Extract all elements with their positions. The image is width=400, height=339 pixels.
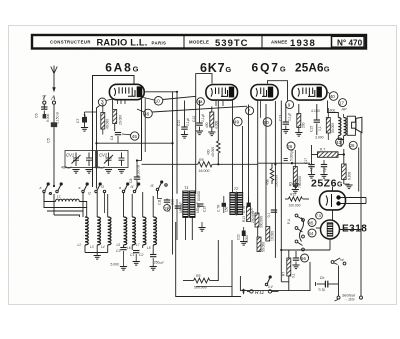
svg-text:C.TR: C.TR (217, 204, 221, 212)
wires divider (312, 154, 318, 156)
resistor R3 cathode (210, 112, 214, 127)
svg-text:C11: C11 (158, 199, 162, 205)
capacitor C1 (133, 251, 139, 253)
svg-text:L1: L1 (57, 195, 61, 199)
svg-text:I3: I3 (101, 185, 104, 189)
wire node3 link (106, 98, 113, 101)
svg-text:150µµF: 150µµF (196, 202, 200, 213)
svg-text:0,1: 0,1 (267, 213, 271, 218)
svg-text:C13: C13 (279, 115, 283, 121)
svg-text:250µµF: 250µµF (154, 261, 165, 265)
tube U5 25Z6 envelope (320, 191, 346, 210)
wire E318 left stub (316, 227, 321, 229)
terminal row R ohm (242, 289, 279, 294)
node 66 circle (301, 254, 309, 262)
svg-text:L8: L8 (147, 246, 151, 250)
svg-text:P.U.: P.U. (287, 218, 291, 224)
capacitor C12 with ground (199, 101, 201, 123)
svg-text:C12: C12 (192, 116, 196, 122)
resistor cathode 25A6 (297, 114, 301, 128)
coil L2 (85, 217, 88, 245)
capacitor bottom right with ground (295, 251, 297, 258)
wire antenna A branch (53, 104, 55, 122)
resistor R2 (113, 110, 117, 124)
resistor R12 horizontal (285, 198, 288, 200)
grounds under gang (72, 170, 79, 174)
svg-text:L6: L6 (127, 246, 131, 250)
output transformer winding secondary (344, 118, 347, 136)
junction dot (291, 162, 293, 164)
speaker voice coil (352, 122, 356, 128)
svg-text:0,1µf: 0,1µf (201, 114, 205, 122)
resistor R6 16.000 horizontal (142, 163, 198, 165)
svg-text:C10: C10 (177, 120, 181, 126)
svg-text:50.000: 50.000 (331, 123, 335, 133)
svg-text:C5: C5 (47, 138, 51, 143)
svg-text:250.000: 250.000 (251, 211, 255, 223)
svg-text:150µµF: 150µµF (179, 202, 183, 213)
svg-text:Bob.: Bob. (330, 109, 337, 113)
wire A down to switch (53, 127, 55, 186)
band switch S3 (122, 183, 139, 193)
tube U2 6K7 envelope (206, 85, 238, 101)
svg-text:19: 19 (164, 206, 168, 210)
svg-text:R6: R6 (199, 158, 204, 162)
svg-text:a: a (119, 186, 121, 190)
resistor R5 500.000 (183, 280, 194, 282)
svg-text:Ch: Ch (320, 276, 325, 280)
svg-text:R5: R5 (196, 274, 201, 278)
node 42 circle (197, 98, 205, 106)
secteur switch (331, 258, 362, 301)
svg-text:L3: L3 (90, 245, 94, 249)
transformer T1 primary (183, 191, 188, 217)
svg-text:400: 400 (205, 122, 209, 128)
capacitor C18 (175, 206, 181, 208)
svg-text:A: A (50, 95, 56, 102)
wire antenna T branch (43, 104, 45, 109)
svg-text:T2: T2 (234, 186, 239, 191)
svg-text:C17: C17 (304, 158, 308, 164)
transformer T2 primary (230, 193, 235, 215)
svg-text:R12: R12 (290, 192, 296, 196)
node 49 circle (234, 117, 243, 126)
coil L3 (97, 217, 100, 245)
svg-text:I4: I4 (131, 185, 134, 189)
terminal T (43, 101, 46, 104)
svg-text:4a: 4a (198, 99, 203, 104)
svg-text:400: 400 (207, 149, 211, 155)
svg-text:R.T.: R.T. (320, 148, 326, 152)
capacitor C11 small (164, 200, 170, 202)
svg-text:43: 43 (336, 140, 341, 145)
wire transformer bottom (338, 136, 343, 140)
svg-text:Int: Int (340, 258, 344, 262)
svg-text:20.000: 20.000 (119, 115, 123, 125)
wire anode link to 6K7 (144, 98, 155, 101)
tube U3 electrodes (256, 87, 273, 97)
page scan edge (9, 26, 397, 305)
svg-text:4.150: 4.150 (311, 109, 320, 113)
node f circle (246, 107, 254, 115)
node 19 circle (164, 205, 171, 212)
svg-text:0,1µf: 0,1µf (186, 118, 190, 126)
svg-text:R9: R9 (289, 182, 293, 186)
svg-text:17: 17 (339, 100, 344, 105)
svg-text:49: 49 (234, 119, 240, 124)
svg-text:E318: E318 (342, 224, 367, 235)
resistor 300.000 (255, 213, 259, 227)
svg-text:100.000: 100.000 (289, 204, 301, 208)
switch 0V (265, 276, 271, 286)
ground T2 top (292, 184, 299, 188)
ground under C19 (201, 222, 203, 227)
wire below C6 (43, 111, 45, 115)
wire 6K7 anode down (232, 100, 234, 192)
wire under E318 horizontal (281, 249, 330, 251)
svg-text:6.800: 6.800 (348, 172, 352, 180)
node 45 circle (131, 132, 139, 140)
wire right bus from speaker (358, 148, 360, 192)
svg-text:5.000µµ: 5.000µµ (290, 149, 294, 161)
wire 25A6 pins long (274, 101, 276, 258)
capacitor C2 250µµF (150, 255, 156, 257)
node 44 circle right (308, 229, 316, 237)
svg-text:539TC: 539TC (215, 38, 249, 49)
svg-text:L7: L7 (136, 243, 140, 247)
svg-text:C4: C4 (110, 136, 114, 140)
wire left bus down (92, 76, 94, 188)
voltage divider resistor (318, 152, 339, 158)
svg-text:40.000: 40.000 (211, 147, 215, 157)
capacitor C10 with ground (184, 101, 186, 127)
svg-text:40: 40 (330, 94, 336, 99)
tube U6 filament bar (327, 223, 333, 236)
node 26 circle right (349, 141, 357, 149)
svg-text:0,1: 0,1 (291, 273, 295, 278)
node 10 circle (154, 97, 163, 106)
svg-text:T1: T1 (184, 185, 189, 190)
capacitor C20 left of T2 (222, 203, 226, 207)
wire L1 out (79, 202, 86, 208)
svg-text:→ 110v: → 110v (344, 298, 355, 302)
node 9 circle (286, 101, 294, 109)
tube U1 electrodes (114, 87, 142, 97)
tube U6 E318 envelope (321, 220, 340, 239)
svg-text:45: 45 (308, 220, 313, 225)
gang capacitor CV2 box (98, 151, 129, 168)
wires under coils (85, 245, 153, 255)
coil L4 (108, 217, 111, 245)
terminal A (52, 101, 55, 104)
coil L1 horizontal (56, 199, 80, 201)
svg-text:10: 10 (155, 99, 161, 104)
wire E318 bottom (329, 239, 331, 250)
tube U4 25A6 envelope (292, 85, 327, 101)
svg-text:C15: C15 (310, 126, 314, 132)
svg-text:C22: C22 (237, 234, 241, 240)
resistor 50.000b (257, 237, 261, 252)
speaker cone (356, 117, 362, 132)
wire nested bus 3 (54, 215, 80, 217)
output transformer winding primary (338, 118, 341, 136)
svg-text:200: 200 (302, 122, 306, 128)
svg-text:66: 66 (301, 256, 306, 261)
PU jack (295, 214, 304, 251)
capacitor C5 (51, 122, 57, 127)
resistor R1 40.000 (101, 113, 105, 130)
wires 25Z6 plate dots to right (341, 197, 367, 199)
capacitor C3 5.000 (120, 248, 126, 250)
tube U3 6Q7 envelope (251, 85, 278, 101)
capacitor C16 small (284, 159, 288, 161)
svg-text:44: 44 (308, 231, 313, 236)
svg-text:L2: L2 (78, 243, 82, 247)
paper noise (9, 26, 396, 304)
wire pair to tube1 right (144, 92, 177, 194)
svg-text:C8: C8 (129, 179, 133, 183)
svg-text:45: 45 (132, 134, 138, 139)
resistor blob below C6 (43, 114, 46, 119)
svg-text:10.000: 10.000 (197, 191, 201, 201)
resistor 750.000 (293, 167, 297, 187)
wire 6A8 pins down (112, 100, 114, 110)
capacitor 0.1 T2 (271, 210, 277, 212)
node 26 circle mid (287, 142, 295, 150)
svg-text:7,5: 7,5 (316, 214, 321, 218)
svg-text:C.TR: C.TR (242, 205, 246, 213)
svg-text:C6: C6 (35, 113, 39, 118)
svg-text:10.000: 10.000 (271, 231, 275, 241)
wire 6A8 anode pins long (141, 99, 143, 161)
wire cap c7 top (85, 111, 97, 113)
svg-text:46: 46 (144, 111, 150, 116)
svg-text:460µµF: 460µµF (94, 166, 105, 170)
svg-text:1938: 1938 (290, 38, 316, 49)
capacitor 2uF right (321, 165, 327, 167)
svg-text:ANNEE: ANNEE (271, 40, 288, 45)
node 43 circle (336, 138, 344, 146)
svg-text:2µF: 2µF (323, 166, 327, 172)
wire left switch chain S4 down (158, 194, 163, 199)
wire E318 right down (340, 229, 361, 231)
wire 25Z6 top (332, 187, 334, 192)
tube U5 electrodes (326, 194, 340, 207)
capacitor C15 (316, 104, 318, 120)
wire node45 stub (122, 133, 131, 136)
svg-text:MODELE: MODELE (189, 40, 209, 45)
svg-text:C3: C3 (116, 249, 120, 253)
svg-text:RADIO L.L.: RADIO L.L. (97, 37, 148, 47)
node 46 circle (144, 109, 153, 118)
wire switch1 to L1 (44, 192, 56, 202)
svg-text:L4: L4 (101, 245, 105, 249)
svg-text:a: a (40, 186, 42, 190)
svg-text:C1: C1 (130, 253, 134, 257)
svg-text:467µµF: 467µµF (61, 166, 72, 170)
coil L7 (143, 217, 146, 245)
ground under L3 (94, 256, 101, 260)
antenna (51, 66, 57, 92)
svg-text:300.000: 300.000 (260, 216, 264, 228)
capacitor C8 (134, 177, 140, 179)
svg-text:N° 470: N° 470 (337, 38, 363, 47)
ground under 750.000 (294, 187, 296, 190)
capacitor C6 (41, 107, 47, 109)
coil L6 (132, 217, 135, 245)
wire horiz y143 (97, 142, 173, 144)
wire 25Z6 bottom to E318 (332, 210, 334, 220)
node 45 circle right (308, 219, 316, 227)
svg-text:R7: R7 (282, 272, 286, 276)
resistor 50.000 vert (326, 118, 330, 134)
wire bottom bus 286 (196, 286, 232, 288)
capacitor C17 (308, 165, 314, 167)
wire nested bus 1 (44, 208, 87, 218)
svg-text:PARIS: PARIS (152, 41, 167, 46)
svg-text:CV2: CV2 (99, 153, 108, 158)
svg-text:CV1: CV1 (66, 153, 74, 158)
svg-text:750.000: 750.000 (298, 176, 302, 188)
svg-text:C7: C7 (76, 119, 80, 123)
svg-text:HP: HP (342, 108, 348, 112)
svg-text:CONSTRUCTEUR: CONSTRUCTEUR (50, 40, 91, 45)
wire speaker return down (360, 133, 363, 296)
transformer T2 secondary (237, 193, 242, 215)
wire 25A6 anode to HP (328, 101, 339, 118)
band switch S2 (82, 183, 106, 193)
wire nested bus 2 (47, 211, 83, 217)
node 40 circle (329, 92, 338, 101)
svg-text:R13: R13 (242, 216, 246, 222)
coil L5 (124, 217, 127, 245)
node 3 circle (98, 98, 106, 106)
wire 6Q7 top frame (268, 81, 288, 101)
tube U1 6A8 envelope (109, 84, 144, 99)
svg-text:150: 150 (225, 206, 229, 212)
transformer T1 secondary (190, 191, 195, 217)
resistor 40.000 vertical zigzag (217, 141, 221, 153)
wire 6A8 top frame (93, 76, 135, 85)
node 17 circle (339, 99, 347, 107)
svg-text:0,1: 0,1 (318, 126, 322, 131)
coil L8 (153, 217, 156, 245)
gang capacitor CV1 box (65, 151, 96, 168)
svg-text:0,1µ: 0,1µ (319, 288, 326, 292)
resistor 6.800 (342, 164, 347, 180)
band switch S1 (43, 183, 63, 195)
svg-text:9.000: 9.000 (46, 114, 50, 122)
band switch S4 (156, 181, 167, 194)
header box (32, 35, 366, 49)
svg-text:1.150 m: 1.150 m (56, 112, 60, 124)
wire stub to node 40 (327, 91, 331, 94)
svg-text:C18: C18 (171, 199, 175, 205)
label 7.5 (316, 212, 323, 219)
svg-text:26: 26 (350, 143, 355, 148)
svg-text:L5: L5 (117, 243, 121, 247)
svg-text:R.Ω: R.Ω (255, 290, 264, 296)
resistor 100.000 vertical zigzag (270, 169, 274, 185)
svg-text:a: a (79, 186, 81, 190)
wire 6Q7 pins down (257, 101, 259, 237)
wire switch drops (43, 192, 45, 208)
svg-text:I1: I1 (49, 192, 52, 196)
wire agc diagonal (152, 106, 247, 112)
tube U4 electrodes (298, 87, 321, 97)
svg-text:I5: I5 (151, 184, 154, 188)
svg-text:5.000: 5.000 (111, 263, 120, 267)
bottom enclosure box (176, 222, 241, 297)
tube U2 electrodes (211, 87, 234, 97)
speaker frame box (347, 116, 355, 135)
resistor 10.000 (266, 227, 270, 242)
svg-text:C2: C2 (139, 253, 143, 257)
svg-text:C19: C19 (202, 206, 206, 212)
svg-text:I2: I2 (88, 192, 91, 196)
resistor 250.000 (247, 207, 251, 222)
svg-text:0,1µf: 0,1µf (287, 113, 291, 121)
resistor R7 vertical (287, 258, 291, 276)
capacitor C22 with ground (242, 231, 246, 237)
capacitor C21 right of T2 (247, 203, 251, 207)
node 50 circle (263, 118, 272, 127)
svg-text:16.000: 16.000 (199, 169, 210, 173)
svg-text:26: 26 (287, 144, 292, 149)
svg-text:50.000: 50.000 (262, 242, 266, 252)
wire vert 172 (172, 92, 174, 255)
wire bottom bus 290 (240, 262, 310, 291)
wire 6K7 pins (215, 101, 217, 106)
capacitor C9 (115, 133, 121, 135)
svg-text:3.000: 3.000 (315, 136, 324, 140)
capacitor C19 (197, 204, 203, 206)
svg-text:9: 9 (288, 102, 291, 107)
capacitor C13 with ground (285, 104, 287, 122)
svg-text:40.000: 40.000 (106, 119, 110, 129)
wires T1 bottom down (185, 217, 187, 240)
